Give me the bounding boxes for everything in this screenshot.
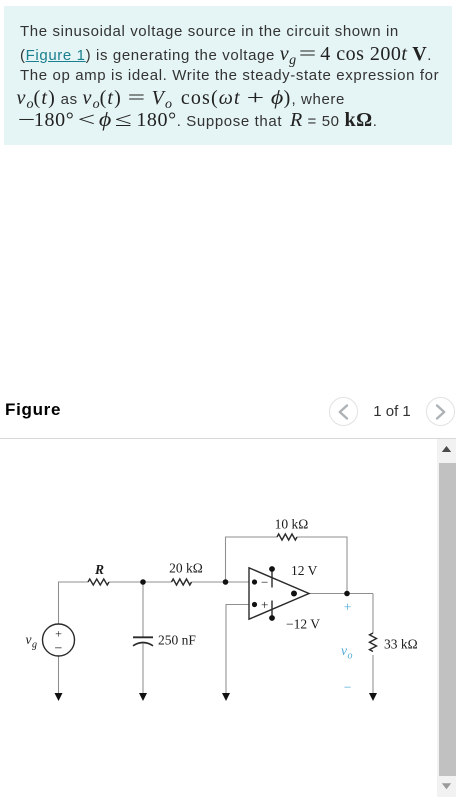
output terminal dot [291, 591, 297, 597]
minus input terminal dot [252, 579, 257, 584]
wire: 33k to ground [372, 655, 374, 694]
wire: R to node A [109, 581, 172, 583]
plus input terminal dot [252, 602, 257, 607]
capacitor C plates [133, 636, 153, 638]
wire: plus input to ground [226, 605, 249, 695]
svg-text:o: o [348, 651, 353, 662]
resistor R [88, 579, 109, 585]
svg-text:+: + [261, 597, 268, 612]
wire: source bottom to ground [58, 656, 60, 694]
svg-text:10 kΩ: 10 kΩ [275, 517, 309, 532]
scrollbar track [437, 439, 456, 797]
svg-text:33 kΩ: 33 kΩ [384, 637, 418, 652]
wire: node A down to capacitor [142, 582, 144, 637]
svg-text:−: − [344, 680, 352, 695]
resistor 33k [370, 633, 377, 652]
node A junction dot [140, 579, 146, 585]
scrollbar up arrow [437, 439, 456, 456]
op-amp power lead 12V [271, 569, 273, 588]
prev button [329, 397, 358, 426]
svg-text:+: + [55, 627, 62, 641]
op-amp power lead -12V [271, 601, 273, 619]
svg-text:+: + [344, 600, 352, 615]
resistor 20k [172, 579, 192, 585]
positive supply dot [269, 566, 275, 572]
svg-text:g: g [32, 640, 37, 651]
wire: source top to R [59, 582, 89, 624]
ground arrow: load [369, 693, 377, 701]
figure panel top border [0, 438, 456, 439]
wire: feedback right vertical [297, 537, 347, 594]
wire: capacitor bottom to ground [142, 644, 144, 695]
next button [426, 397, 455, 426]
node B junction dot [223, 579, 229, 585]
resistor 10k [277, 534, 297, 540]
wire: op-amp output [309, 593, 373, 595]
negative supply dot [269, 615, 275, 621]
wire: 20k to op-amp minus input [192, 581, 250, 583]
svg-text:v: v [341, 643, 347, 658]
circuit schematic [0, 438, 437, 728]
scrollbar thumb [439, 463, 456, 776]
svg-text:−12 V: −12 V [286, 617, 320, 632]
svg-text:−: − [261, 575, 268, 590]
problem statement box [4, 6, 452, 145]
ground arrow: plus input [222, 693, 230, 701]
wire: feedback left vertical [226, 537, 278, 582]
voltage source circle [43, 624, 75, 656]
svg-text:20 kΩ: 20 kΩ [169, 561, 203, 576]
wire: output node down to 33k [372, 594, 374, 634]
svg-text:−: − [55, 642, 63, 657]
scrollbar down arrow [437, 780, 456, 797]
ground arrow: capacitor [139, 693, 147, 701]
svg-text:R: R [94, 562, 104, 577]
output node junction dot [344, 591, 350, 597]
Figure heading [5, 400, 61, 420]
ground arrow: source [55, 693, 63, 701]
svg-text:v: v [26, 632, 32, 647]
op-amp triangle U1 [249, 568, 309, 619]
svg-text:12 V: 12 V [291, 563, 318, 578]
svg-text:250 nF: 250 nF [158, 633, 196, 648]
page text [371, 403, 413, 420]
